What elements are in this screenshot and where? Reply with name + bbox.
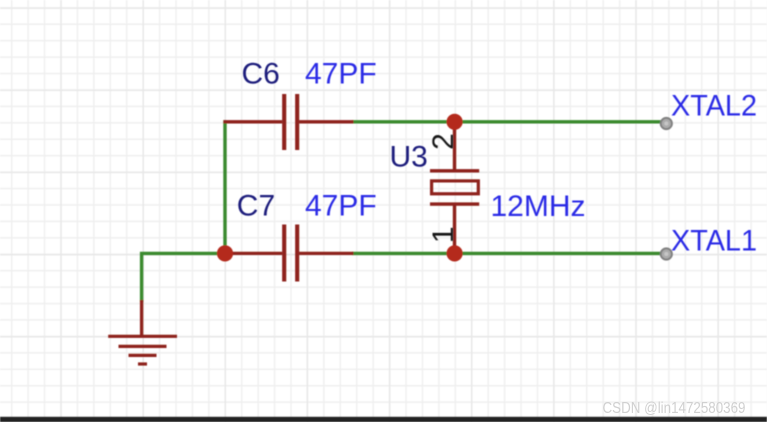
svg-text:CSDN @lin1472580369: CSDN @lin1472580369 xyxy=(603,400,746,417)
svg-text:47PF: 47PF xyxy=(305,58,377,91)
svg-text:47PF: 47PF xyxy=(305,189,377,222)
junction dot at XTAL1 / crystal pin 1 xyxy=(447,245,463,261)
svg-text:U3: U3 xyxy=(390,140,428,173)
junction dot at C7 / ground branch xyxy=(217,245,233,261)
svg-text:12MHz: 12MHz xyxy=(491,190,586,223)
capacitor C6 xyxy=(223,94,353,150)
svg-text:C6: C6 xyxy=(242,58,280,91)
wire: bottom horizontal net XTAL1 xyxy=(352,252,661,255)
svg-text:2: 2 xyxy=(427,133,460,150)
svg-text:1: 1 xyxy=(427,226,460,243)
wire: junction to ground elbow xyxy=(142,253,225,302)
junction dot at XTAL2 / crystal pin 2 xyxy=(447,114,463,130)
terminal XTAL2 xyxy=(661,118,672,129)
crystal U3 xyxy=(430,124,479,251)
capacitor C7 xyxy=(223,225,353,282)
svg-text:XTAL1: XTAL1 xyxy=(671,225,757,258)
svg-text:XTAL2: XTAL2 xyxy=(671,89,757,122)
terminal XTAL1 xyxy=(661,248,672,259)
ground xyxy=(108,300,177,364)
bottom window edge bar xyxy=(0,417,767,422)
svg-text:C7: C7 xyxy=(237,189,275,222)
wire: left vertical between C6 and C7 xyxy=(223,120,226,253)
wire: top horizontal net XTAL2 xyxy=(352,120,661,123)
